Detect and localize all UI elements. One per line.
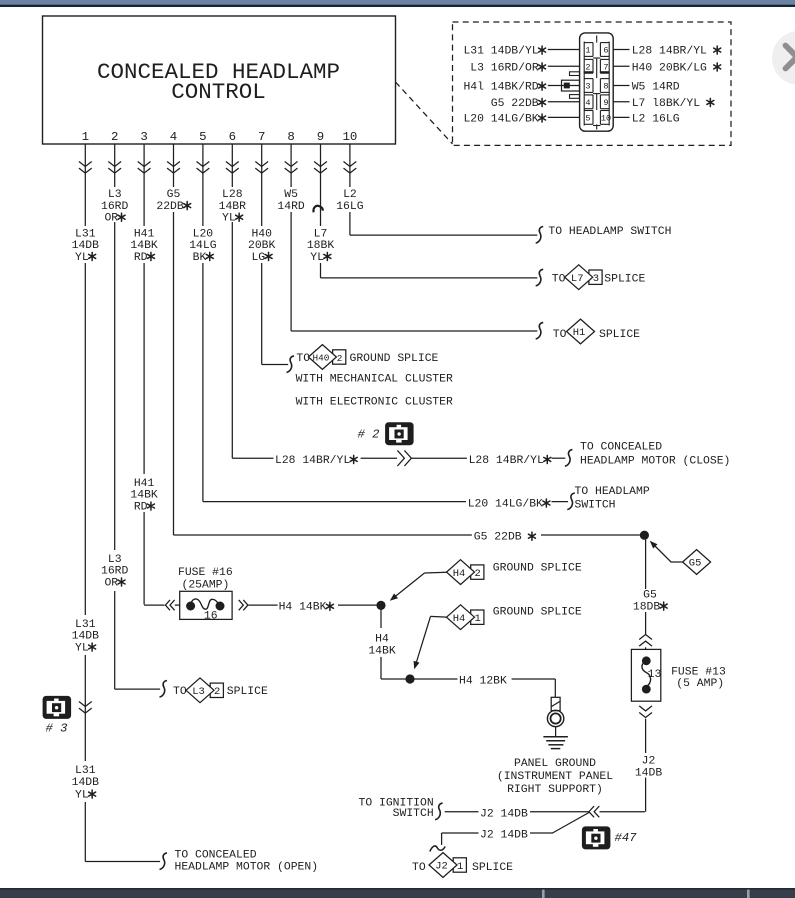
svg-text:TO CONCEALED: TO CONCEALED xyxy=(175,850,257,862)
svg-text:7: 7 xyxy=(258,130,265,144)
svg-text:1: 1 xyxy=(585,46,590,56)
svg-text:L28 14BR/YL: L28 14BR/YL xyxy=(632,46,707,58)
svg-text:2: 2 xyxy=(111,130,118,144)
svg-text:FUSE #16: FUSE #16 xyxy=(178,567,233,579)
svg-text:L7: L7 xyxy=(314,229,328,241)
svg-text:16: 16 xyxy=(204,610,218,622)
svg-text:H4: H4 xyxy=(375,634,389,646)
svg-text:SWITCH: SWITCH xyxy=(393,808,434,820)
svg-text:TO: TO xyxy=(553,329,567,341)
svg-text:H1: H1 xyxy=(573,327,586,339)
svg-text:L3: L3 xyxy=(192,686,205,698)
svg-text:TO: TO xyxy=(173,686,187,698)
svg-text:L31 14DB/YL: L31 14DB/YL xyxy=(463,46,538,58)
svg-text:CONTROL: CONTROL xyxy=(171,79,266,105)
svg-text:G5 22DB: G5 22DB xyxy=(491,98,539,110)
svg-text:14BK: 14BK xyxy=(368,646,396,658)
svg-text:L3: L3 xyxy=(108,189,122,201)
svg-text:WITH MECHANICAL CLUSTER: WITH MECHANICAL CLUSTER xyxy=(296,374,453,386)
svg-text:H4: H4 xyxy=(453,568,466,580)
svg-text:BK: BK xyxy=(193,252,207,264)
svg-text:YL: YL xyxy=(75,252,89,264)
svg-text:SPLICE: SPLICE xyxy=(472,862,513,874)
svg-text:H4 12BK: H4 12BK xyxy=(459,676,507,688)
svg-text:14DB: 14DB xyxy=(72,777,100,789)
svg-text:(5 AMP): (5 AMP) xyxy=(676,678,724,690)
svg-text:J2 14DB: J2 14DB xyxy=(480,808,528,820)
svg-text:18BK: 18BK xyxy=(307,240,335,252)
svg-text:L28 14BR/YL: L28 14BR/YL xyxy=(469,455,544,467)
svg-text:2: 2 xyxy=(585,62,590,72)
svg-text:OR: OR xyxy=(104,577,118,589)
svg-text:8: 8 xyxy=(287,130,294,144)
svg-text:YL: YL xyxy=(75,790,89,802)
svg-text:TO: TO xyxy=(296,353,310,365)
svg-text:2: 2 xyxy=(475,568,481,580)
svg-text:9: 9 xyxy=(317,130,324,144)
svg-text:10: 10 xyxy=(601,114,611,124)
svg-text:LG: LG xyxy=(251,252,265,264)
svg-text:L7: L7 xyxy=(571,273,584,285)
svg-text:3: 3 xyxy=(593,273,599,285)
svg-text:RD: RD xyxy=(134,252,148,264)
svg-text:W5 14RD: W5 14RD xyxy=(632,82,680,94)
svg-text:OR: OR xyxy=(104,213,118,225)
svg-text:PANEL GROUND: PANEL GROUND xyxy=(514,758,596,770)
svg-text:20BK: 20BK xyxy=(248,240,276,252)
svg-text:G5 22DB: G5 22DB xyxy=(474,532,522,544)
svg-text:22DB: 22DB xyxy=(156,201,184,213)
svg-text:L3: L3 xyxy=(108,554,122,566)
svg-text:TO HEADLAMP: TO HEADLAMP xyxy=(575,486,650,498)
svg-text:L20: L20 xyxy=(193,229,214,241)
svg-text:YL: YL xyxy=(310,252,324,264)
svg-text:H4l 14BK/RD: H4l 14BK/RD xyxy=(463,82,538,94)
svg-text:2: 2 xyxy=(214,686,220,698)
svg-text:YL: YL xyxy=(222,213,236,225)
svg-text:4: 4 xyxy=(585,98,590,108)
svg-text:8: 8 xyxy=(603,82,608,92)
svg-text:J2: J2 xyxy=(642,756,656,768)
svg-text:# 2: # 2 xyxy=(358,427,380,441)
svg-text:SWITCH: SWITCH xyxy=(575,499,616,511)
svg-text:YL: YL xyxy=(75,642,89,654)
svg-text:(INSTRUMENT PANEL: (INSTRUMENT PANEL xyxy=(497,771,613,783)
svg-text:14RD: 14RD xyxy=(277,201,305,213)
svg-text:TO: TO xyxy=(412,862,426,874)
svg-text:3: 3 xyxy=(585,82,590,92)
svg-text:L20 14LG/BK: L20 14LG/BK xyxy=(463,113,538,125)
svg-text:H4 14BK: H4 14BK xyxy=(279,602,327,614)
svg-text:1: 1 xyxy=(475,613,481,625)
svg-text:10: 10 xyxy=(342,130,357,144)
svg-text:H40: H40 xyxy=(251,229,272,241)
svg-text:L31: L31 xyxy=(75,619,96,631)
svg-text:H40: H40 xyxy=(312,353,329,364)
svg-text:14BR: 14BR xyxy=(219,201,247,213)
svg-text:L7 l8BK/YL: L7 l8BK/YL xyxy=(632,98,701,110)
svg-text:GROUND SPLICE: GROUND SPLICE xyxy=(493,562,582,574)
svg-text:TO: TO xyxy=(552,273,566,285)
svg-text:5: 5 xyxy=(585,114,590,124)
svg-text:1: 1 xyxy=(457,861,463,873)
svg-text:4: 4 xyxy=(170,130,177,144)
svg-text:GROUND SPLICE: GROUND SPLICE xyxy=(350,353,439,365)
svg-text:14DB: 14DB xyxy=(72,240,100,252)
svg-text:H41: H41 xyxy=(134,478,155,490)
svg-text:1: 1 xyxy=(82,130,89,144)
svg-text:GROUND SPLICE: GROUND SPLICE xyxy=(493,606,582,618)
svg-text:H40 20BK/LG: H40 20BK/LG xyxy=(632,62,707,74)
svg-text:L3 16RD/OR: L3 16RD/OR xyxy=(470,62,539,74)
svg-text:H41: H41 xyxy=(134,229,155,241)
svg-text:13: 13 xyxy=(648,669,662,681)
svg-text:L2 16LG: L2 16LG xyxy=(632,113,680,125)
svg-text:(25AMP): (25AMP) xyxy=(182,580,230,592)
svg-text:14BK: 14BK xyxy=(130,490,158,502)
svg-text:L2: L2 xyxy=(343,189,357,201)
svg-text:TO CONCEALED: TO CONCEALED xyxy=(580,441,662,453)
svg-text:14DB: 14DB xyxy=(635,768,663,780)
svg-text:16LG: 16LG xyxy=(336,201,364,213)
svg-text:14LG: 14LG xyxy=(189,240,217,252)
svg-text:SPLICE: SPLICE xyxy=(599,329,640,341)
svg-text:FUSE #13: FUSE #13 xyxy=(671,667,726,679)
svg-text:#47: #47 xyxy=(615,831,638,845)
svg-text:7: 7 xyxy=(603,62,608,72)
svg-text:14BK: 14BK xyxy=(130,240,158,252)
svg-text:3: 3 xyxy=(140,130,147,144)
svg-text:HEADLAMP MOTOR (CLOSE): HEADLAMP MOTOR (CLOSE) xyxy=(580,455,730,467)
svg-text:RD: RD xyxy=(134,501,148,513)
svg-text:SPLICE: SPLICE xyxy=(227,686,268,698)
svg-text:L31: L31 xyxy=(75,229,96,241)
svg-text:WITH ELECTRONIC CLUSTER: WITH ELECTRONIC CLUSTER xyxy=(296,396,453,408)
svg-text:5: 5 xyxy=(199,130,206,144)
svg-text:9: 9 xyxy=(603,98,608,108)
svg-text:16RD: 16RD xyxy=(101,566,129,578)
svg-text:RIGHT SUPPORT): RIGHT SUPPORT) xyxy=(507,784,603,796)
svg-text:6: 6 xyxy=(229,130,236,144)
svg-text:16RD: 16RD xyxy=(101,201,129,213)
svg-text:L20 14LG/BK: L20 14LG/BK xyxy=(468,498,543,510)
svg-text:G5: G5 xyxy=(643,590,657,602)
svg-text:SPLICE: SPLICE xyxy=(604,273,645,285)
svg-text:2: 2 xyxy=(337,353,343,364)
svg-text:6: 6 xyxy=(603,46,608,56)
svg-text:L28: L28 xyxy=(222,189,243,201)
svg-text:J2: J2 xyxy=(435,861,448,873)
svg-text:HEADLAMP MOTOR (OPEN): HEADLAMP MOTOR (OPEN) xyxy=(175,862,319,874)
svg-text:W5: W5 xyxy=(284,189,298,201)
svg-text:G5: G5 xyxy=(167,189,181,201)
svg-text:G5: G5 xyxy=(689,558,702,570)
svg-text:L31: L31 xyxy=(75,765,96,777)
svg-text:18DB: 18DB xyxy=(633,602,661,614)
svg-text:TO HEADLAMP SWITCH: TO HEADLAMP SWITCH xyxy=(548,226,671,238)
svg-text:# 3: # 3 xyxy=(46,722,68,736)
svg-text:J2 14DB: J2 14DB xyxy=(480,830,528,842)
svg-text:L28 14BR/YL: L28 14BR/YL xyxy=(275,455,350,467)
svg-text:14DB: 14DB xyxy=(72,631,100,643)
svg-text:H4: H4 xyxy=(453,613,466,625)
